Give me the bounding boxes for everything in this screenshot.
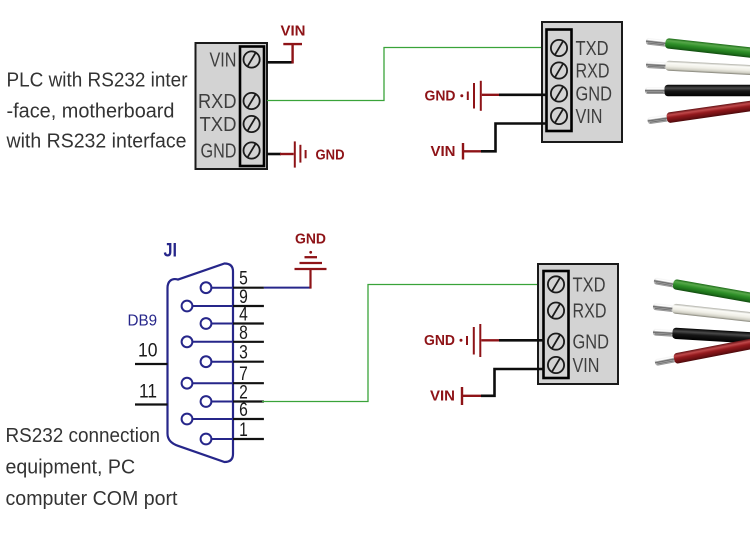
svg-text:DB9: DB9 xyxy=(128,313,158,330)
svg-text:6: 6 xyxy=(239,399,248,421)
svg-text:10: 10 xyxy=(138,340,158,362)
svg-text:RXD: RXD xyxy=(576,61,610,83)
svg-text:GND: GND xyxy=(573,332,610,354)
svg-text:GND: GND xyxy=(295,231,326,247)
svg-text:with RS232 interface: with RS232 interface xyxy=(6,131,187,153)
svg-text:VIN: VIN xyxy=(431,144,456,160)
svg-text:VIN: VIN xyxy=(281,24,306,40)
svg-text:VIN: VIN xyxy=(576,106,603,128)
svg-text:computer COM port: computer COM port xyxy=(6,488,178,510)
svg-text:GND: GND xyxy=(316,148,345,164)
svg-text:equipment, PC: equipment, PC xyxy=(6,457,136,479)
svg-text:VIN: VIN xyxy=(210,50,237,72)
svg-text:TXD: TXD xyxy=(576,38,609,60)
svg-text:PLC with RS232 inter: PLC with RS232 inter xyxy=(7,70,188,92)
svg-text:VIN: VIN xyxy=(573,355,600,377)
svg-text:-face, motherboard: -face, motherboard xyxy=(7,101,175,123)
svg-text:GND: GND xyxy=(201,141,237,163)
svg-text:1: 1 xyxy=(239,419,248,441)
svg-text:GND: GND xyxy=(576,84,613,106)
svg-text:GND: GND xyxy=(425,89,456,105)
svg-text:VIN: VIN xyxy=(430,388,455,404)
svg-text:RS232 connection: RS232 connection xyxy=(6,425,161,447)
svg-text:TXD: TXD xyxy=(573,274,606,296)
svg-text:TXD: TXD xyxy=(200,114,237,136)
svg-text:11: 11 xyxy=(139,381,157,403)
svg-text:3: 3 xyxy=(239,342,248,364)
svg-text:JI: JI xyxy=(164,241,178,262)
svg-text:RXD: RXD xyxy=(198,91,237,113)
svg-text:GND: GND xyxy=(424,333,455,349)
svg-text:8: 8 xyxy=(239,322,248,344)
svg-text:RXD: RXD xyxy=(573,301,607,323)
